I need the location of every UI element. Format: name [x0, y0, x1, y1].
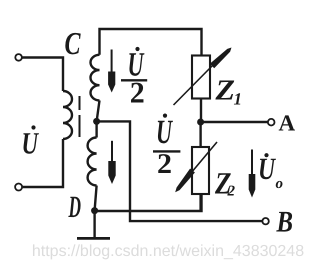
svg-text:U: U [22, 126, 40, 161]
svg-text:C: C [65, 25, 81, 61]
svg-text:1: 1 [234, 90, 243, 109]
svg-text:B: B [276, 205, 293, 238]
svg-text:o: o [276, 176, 284, 192]
svg-text:2: 2 [227, 184, 236, 200]
svg-text:https://blog.csdn.net/weixin_4: https://blog.csdn.net/weixin_43830248 [32, 243, 304, 260]
svg-text:U: U [258, 151, 276, 186]
svg-text:U: U [156, 114, 174, 151]
svg-text:2: 2 [157, 149, 172, 180]
svg-text:Z: Z [214, 75, 235, 107]
svg-text:D: D [68, 189, 81, 224]
svg-text:A: A [279, 111, 296, 136]
svg-text:2: 2 [130, 76, 145, 109]
